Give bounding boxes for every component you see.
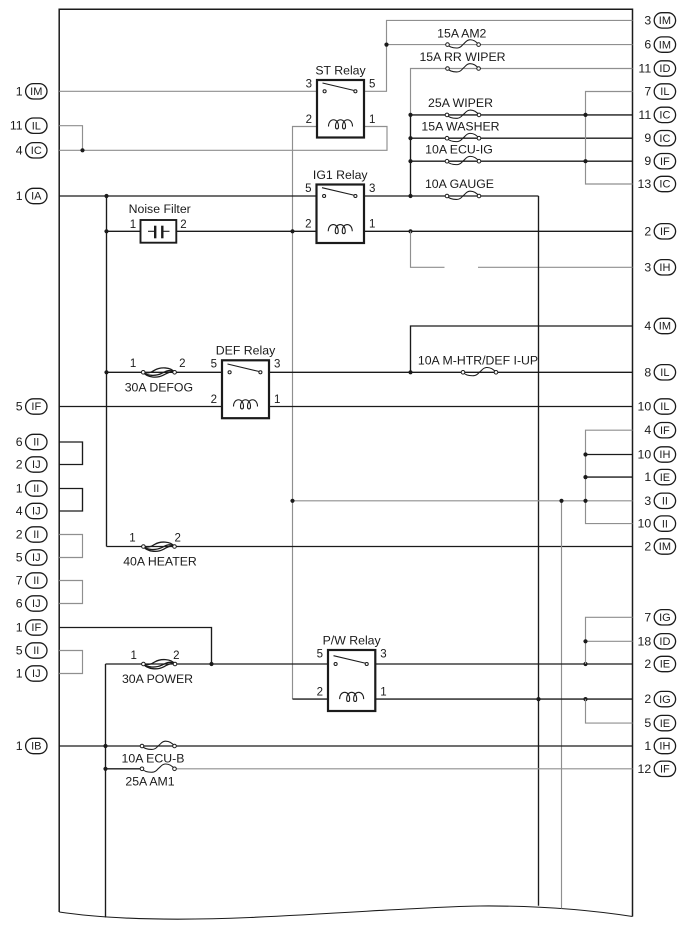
wire 1 IM to ST relay pin 3 xyxy=(59,90,317,92)
connector 11 IC (right) xyxy=(638,107,675,122)
svg-text:1: 1 xyxy=(16,482,23,496)
connector 9 IF (right) xyxy=(644,154,675,169)
wire 25A WIPER row to 11 IC xyxy=(411,114,633,116)
svg-text:18: 18 xyxy=(638,634,652,648)
svg-text:10A GAUGE: 10A GAUGE xyxy=(425,177,494,191)
svg-text:1: 1 xyxy=(16,189,23,203)
svg-text:IM: IM xyxy=(30,86,42,98)
wire 2 II / 5 IJ bracket xyxy=(59,535,82,558)
svg-text:IB: IB xyxy=(31,741,41,753)
connector 12 IF (right) xyxy=(638,761,676,776)
svg-text:5: 5 xyxy=(369,78,375,90)
svg-text:IE: IE xyxy=(660,472,670,484)
junction ECU-B bus xyxy=(103,744,107,748)
connector 13 IC (right) xyxy=(638,176,676,191)
connector 1 IH (right) xyxy=(644,738,675,753)
wire contact spur to 3 IH xyxy=(411,231,445,267)
connector 2 II (left) xyxy=(16,527,47,542)
svg-text:15A RR WIPER: 15A RR WIPER xyxy=(419,50,505,64)
junction bracket / 10 IH xyxy=(583,452,587,456)
connector 9 IC (right) xyxy=(644,131,675,146)
svg-text:10A M-HTR/DEF I-UP: 10A M-HTR/DEF I-UP xyxy=(418,354,538,368)
svg-text:4: 4 xyxy=(16,143,23,157)
wire 11 IL stub xyxy=(59,126,82,151)
fuse 15A AM2 xyxy=(437,26,486,48)
fuse 10A ECU-B xyxy=(122,741,185,765)
svg-text:2: 2 xyxy=(211,394,217,406)
svg-text:IH: IH xyxy=(659,449,670,461)
wire 5 IE bracket xyxy=(586,699,633,723)
svg-text:10A ECU-B: 10A ECU-B xyxy=(122,752,185,766)
svg-text:IG1 Relay: IG1 Relay xyxy=(313,168,369,182)
connector 11 IL (left) xyxy=(10,118,47,133)
svg-text:1: 1 xyxy=(274,394,280,406)
junction 11 IL / 4 IC xyxy=(80,148,84,152)
svg-text:7: 7 xyxy=(16,574,23,588)
svg-text:2: 2 xyxy=(306,114,312,126)
junction fuse bus / GAUGE row xyxy=(408,194,412,198)
wire left feed bus upper xyxy=(106,196,108,547)
connector 3 IH (right) xyxy=(644,260,675,275)
fuse 10A ECU-IG xyxy=(425,142,493,164)
wire 18 ID stub xyxy=(586,640,633,642)
connector 10 II (right) xyxy=(638,516,676,531)
svg-text:10A ECU-IG: 10A ECU-IG xyxy=(425,142,493,156)
wire 1 II / 4 IJ bracket xyxy=(59,489,82,512)
connector 4 IC (left) xyxy=(16,143,47,158)
svg-text:13: 13 xyxy=(638,177,652,191)
svg-text:IC: IC xyxy=(31,145,42,157)
wire 5 II / 1 IJ bracket xyxy=(59,651,82,674)
svg-text:7: 7 xyxy=(644,85,651,99)
svg-text:IC: IC xyxy=(659,133,670,145)
junction 2 IF / contact spur xyxy=(408,229,412,233)
connector 4 IM (right) xyxy=(644,318,675,333)
svg-text:4: 4 xyxy=(644,319,651,333)
svg-text:II: II xyxy=(33,645,39,657)
svg-text:4: 4 xyxy=(16,504,23,518)
junction AM2 / ST pin 5 / 3 IM xyxy=(384,43,388,47)
svg-text:1: 1 xyxy=(16,84,23,98)
connector 6 IM (right) xyxy=(644,37,675,52)
connector 7 IG (right) xyxy=(644,610,675,625)
svg-text:6: 6 xyxy=(644,38,651,52)
svg-text:2: 2 xyxy=(174,532,180,544)
svg-text:2: 2 xyxy=(644,657,651,671)
connector 10 IH (right) xyxy=(638,447,676,462)
connector 3 II (right) xyxy=(644,493,675,508)
wire noise filter row / IG1 coil xyxy=(107,230,141,232)
svg-text:II: II xyxy=(662,518,668,530)
svg-text:IE: IE xyxy=(660,659,670,671)
wire left feed bus lower xyxy=(105,664,107,918)
svg-text:1: 1 xyxy=(16,621,23,635)
wire 1 IA to IG1 relay pin 5 xyxy=(59,195,316,197)
relay IG1 xyxy=(305,168,375,243)
wire P/W relay pin 3 to 2 IE xyxy=(375,663,632,665)
svg-text:IG: IG xyxy=(659,612,671,624)
svg-text:1: 1 xyxy=(130,650,136,662)
svg-text:IH: IH xyxy=(659,741,670,753)
noise filter (capacitor) xyxy=(129,202,191,243)
svg-text:IM: IM xyxy=(659,541,671,553)
connector 1 IJ (left) xyxy=(16,666,47,681)
svg-text:25A AM1: 25A AM1 xyxy=(125,774,174,788)
fusible link 30A POWER xyxy=(122,650,193,686)
wire DEF relay pin 3 to 8 IL xyxy=(269,371,633,373)
svg-text:DEF Relay: DEF Relay xyxy=(216,344,276,358)
wire 15A WASHER row to 9 IC xyxy=(411,137,633,139)
svg-text:IJ: IJ xyxy=(32,552,41,564)
junction noise filter bus xyxy=(104,229,108,233)
svg-text:1: 1 xyxy=(16,667,23,681)
svg-text:5: 5 xyxy=(16,644,23,658)
fusible link 40A HEATER xyxy=(123,532,197,568)
svg-text:IH: IH xyxy=(659,262,670,274)
svg-text:8: 8 xyxy=(644,365,651,379)
fuse 25A WIPER xyxy=(428,96,493,118)
wire 6 IM / 15A AM2 feed xyxy=(387,44,633,46)
connector 2 IJ (left) xyxy=(16,457,47,472)
svg-text:1: 1 xyxy=(644,470,651,484)
wire 10 IH stub xyxy=(586,454,633,456)
connector 5 IF (left) xyxy=(16,399,47,414)
svg-text:IC: IC xyxy=(659,110,670,122)
svg-text:1: 1 xyxy=(380,687,386,699)
wire 7 IG bracket xyxy=(586,617,633,664)
svg-text:2: 2 xyxy=(16,458,23,472)
wire ST relay pin 2 down-bus to P/W relay pin 2 xyxy=(293,127,318,700)
connector 1 IM (left) xyxy=(16,84,47,99)
svg-text:2: 2 xyxy=(180,219,186,231)
svg-text:10: 10 xyxy=(638,517,652,531)
svg-text:II: II xyxy=(662,496,668,508)
wire 6 II / 2 IJ bracket xyxy=(59,442,82,465)
fuse 15A WASHER xyxy=(421,119,499,141)
wire GAUGE output drop xyxy=(538,196,540,906)
wire 1 IF xyxy=(59,628,211,665)
svg-text:2: 2 xyxy=(16,528,23,542)
svg-text:2: 2 xyxy=(644,540,651,554)
connector 1 IA (left) xyxy=(16,188,47,203)
svg-text:II: II xyxy=(33,437,39,449)
connector 2 IG (right) xyxy=(644,691,675,706)
svg-text:Noise Filter: Noise Filter xyxy=(129,202,191,216)
frame bottom torn edge xyxy=(59,906,632,919)
svg-text:3: 3 xyxy=(644,494,651,508)
svg-text:IF: IF xyxy=(660,156,670,168)
svg-text:2: 2 xyxy=(305,219,311,231)
svg-text:II: II xyxy=(33,529,39,541)
svg-text:IM: IM xyxy=(659,39,671,51)
connector 4 IJ (left) xyxy=(16,503,47,518)
wire 30A DEFOG row xyxy=(107,371,223,373)
svg-text:15A AM2: 15A AM2 xyxy=(437,26,486,40)
junction AM1 bus xyxy=(103,767,107,771)
svg-text:5: 5 xyxy=(644,716,651,730)
junction bracket / 18 ID xyxy=(583,639,587,643)
connector 4 IF (right) xyxy=(644,423,675,438)
svg-text:IJ: IJ xyxy=(32,459,41,471)
wire 30A POWER row to P/W relay pin 5 xyxy=(106,663,329,665)
svg-text:1: 1 xyxy=(130,219,136,231)
wire 4 IM xyxy=(411,326,633,372)
wire 10A ECU-IG row to 9 IF xyxy=(411,160,633,162)
svg-text:15A WASHER: 15A WASHER xyxy=(421,119,499,133)
relay DEF xyxy=(211,344,281,418)
connector 3 IM (right) xyxy=(644,13,675,28)
svg-text:IC: IC xyxy=(659,179,670,191)
svg-text:3: 3 xyxy=(369,183,375,195)
wire 4 IF bracket to 10 II xyxy=(586,430,633,523)
wire P/W relay pin 2 feed xyxy=(293,698,329,700)
svg-text:IJ: IJ xyxy=(32,668,41,680)
junction 2 IE / 7 IG bracket xyxy=(583,662,587,666)
svg-text:IL: IL xyxy=(32,120,41,132)
wire 11 ID / 15A RR WIPER feed xyxy=(411,69,633,115)
junction bracket / 9 IF xyxy=(583,159,587,163)
svg-text:1: 1 xyxy=(644,739,651,753)
connector 18 ID (right) xyxy=(638,634,676,649)
wire 1 IB to 10A ECU-B to 1 IH xyxy=(59,745,632,747)
junction IG1 coil / ST pin 2 bus xyxy=(290,229,294,233)
svg-text:IJ: IJ xyxy=(32,598,41,610)
svg-text:3: 3 xyxy=(644,13,651,27)
svg-text:IM: IM xyxy=(659,15,671,27)
svg-text:2: 2 xyxy=(317,687,323,699)
wire 25A AM1 feed xyxy=(106,768,143,770)
svg-text:IM: IM xyxy=(659,321,671,333)
junction mid drop / 3 II xyxy=(559,499,563,503)
svg-text:3: 3 xyxy=(380,648,386,660)
svg-text:IL: IL xyxy=(660,86,669,98)
junction bracket / 1 IE xyxy=(583,475,587,479)
svg-text:1: 1 xyxy=(129,532,135,544)
wire 40A HEATER row to 2 IM xyxy=(107,546,633,548)
svg-text:25A WIPER: 25A WIPER xyxy=(428,96,493,110)
relay P/W xyxy=(317,633,387,711)
svg-text:10: 10 xyxy=(638,448,652,462)
svg-text:40A HEATER: 40A HEATER xyxy=(123,555,197,569)
wire mid drop xyxy=(561,501,563,909)
svg-text:2: 2 xyxy=(179,358,185,370)
svg-text:5: 5 xyxy=(305,183,311,195)
svg-text:II: II xyxy=(33,483,39,495)
svg-text:IF: IF xyxy=(31,622,41,634)
wire 3 II row xyxy=(293,500,633,502)
svg-text:IF: IF xyxy=(31,401,41,413)
junction ECU-IG row xyxy=(408,159,412,163)
connector 1 IE (right) xyxy=(644,469,675,484)
wire 7 IL bracket to 13 IC xyxy=(586,92,633,185)
wire 25A AM1 to 12 IF xyxy=(175,768,633,770)
svg-text:IL: IL xyxy=(660,401,669,413)
open contact pair to 3 IH xyxy=(0,0,1,1)
wire 5 IF to DEF relay pin 2 xyxy=(59,406,222,408)
svg-text:P/W Relay: P/W Relay xyxy=(323,633,382,647)
junction 4 IM / DEF pin 3 row xyxy=(408,370,412,374)
wire noise filter to IG1 relay pin 2 xyxy=(176,230,316,232)
svg-text:ID: ID xyxy=(659,636,670,648)
fusible link 30A DEFOG xyxy=(125,358,193,394)
connector 8 IL (right) xyxy=(644,365,675,380)
connector 5 II (left) xyxy=(16,643,47,658)
svg-text:IF: IF xyxy=(660,425,670,437)
wire P/W relay pin 1 to 2 IG xyxy=(375,698,632,700)
svg-text:1: 1 xyxy=(369,219,375,231)
svg-text:9: 9 xyxy=(644,131,651,145)
svg-text:II: II xyxy=(33,575,39,587)
wire 7 II / 6 IJ bracket xyxy=(59,581,82,604)
svg-text:ST Relay: ST Relay xyxy=(315,63,366,77)
svg-text:2: 2 xyxy=(173,650,179,662)
svg-text:11: 11 xyxy=(10,119,23,133)
junction WIPER row xyxy=(408,113,412,117)
svg-text:IJ: IJ xyxy=(32,506,41,518)
svg-text:IF: IF xyxy=(660,764,670,776)
junction bracket / 3 II xyxy=(583,499,587,503)
connector 1 IB (left) xyxy=(16,738,47,753)
svg-text:10: 10 xyxy=(638,400,652,414)
connector 7 IL (right) xyxy=(644,84,675,99)
svg-text:3: 3 xyxy=(274,359,280,371)
connector 1 II (left) xyxy=(16,481,47,496)
svg-text:IG: IG xyxy=(659,694,671,706)
svg-text:7: 7 xyxy=(644,610,651,624)
wire 3 IM xyxy=(387,20,633,44)
fuse 25A AM1 xyxy=(125,764,176,788)
svg-text:5: 5 xyxy=(317,648,323,660)
svg-text:6: 6 xyxy=(16,597,23,611)
connector 7 II (left) xyxy=(16,573,47,588)
connector 5 IJ (left) xyxy=(16,550,47,565)
svg-text:5: 5 xyxy=(16,400,23,414)
svg-text:11: 11 xyxy=(638,62,651,76)
connector 6 II (left) xyxy=(16,434,47,449)
svg-text:30A POWER: 30A POWER xyxy=(122,672,193,686)
svg-text:6: 6 xyxy=(16,435,23,449)
junction bracket / 11 IC xyxy=(583,113,587,117)
connector 11 ID (right) xyxy=(638,61,675,76)
svg-text:2: 2 xyxy=(644,224,651,238)
wire 4 IC to ST relay pin 1 xyxy=(59,127,387,151)
fuse 10A M-HTR/DEF I-UP xyxy=(418,354,538,376)
connector 2 IE (right) xyxy=(644,656,675,671)
svg-text:ID: ID xyxy=(659,63,670,75)
fuse 10A GAUGE xyxy=(425,177,494,199)
svg-text:IL: IL xyxy=(660,367,669,379)
svg-text:3: 3 xyxy=(644,260,651,274)
svg-text:30A DEFOG: 30A DEFOG xyxy=(125,380,193,394)
svg-text:IF: IF xyxy=(660,226,670,238)
junction 2 IG / 5 IE bracket xyxy=(583,697,587,701)
junction 1 IF / POWER row xyxy=(209,662,213,666)
junction 3 II start xyxy=(290,499,294,503)
connector 6 IJ (left) xyxy=(16,596,47,611)
svg-text:5: 5 xyxy=(211,359,217,371)
svg-text:1: 1 xyxy=(369,114,375,126)
svg-text:1: 1 xyxy=(130,358,136,370)
svg-text:IA: IA xyxy=(31,191,42,203)
wire ST relay pin 5 riser xyxy=(364,45,387,92)
wire IG1 relay pin 1 to 2 IF xyxy=(364,230,633,232)
wire fuse bus riser xyxy=(410,115,412,196)
svg-text:4: 4 xyxy=(644,423,651,437)
svg-text:IE: IE xyxy=(660,718,670,730)
wire 1 IE stub xyxy=(586,476,633,478)
wire 3 IH from contact xyxy=(478,266,633,268)
fuse 15A RR WIPER xyxy=(419,50,505,72)
svg-text:9: 9 xyxy=(644,154,651,168)
svg-text:12: 12 xyxy=(638,762,652,776)
wire DEF relay pin 1 to 10 IL xyxy=(269,406,633,408)
junction 2 IG / GAUGE drop xyxy=(536,697,540,701)
svg-text:5: 5 xyxy=(16,551,23,565)
connector 2 IF (right) xyxy=(644,224,675,239)
connector 5 IE (right) xyxy=(644,715,675,730)
svg-text:1: 1 xyxy=(16,739,23,753)
wire IG1 relay pin 3 to 10A GAUGE xyxy=(364,195,539,197)
junction DEFOG bus xyxy=(104,370,108,374)
svg-text:2: 2 xyxy=(644,692,651,706)
connector 2 IM (right) xyxy=(644,539,675,554)
junction WASHER row xyxy=(408,136,412,140)
junction 1 IA bus xyxy=(104,194,108,198)
connector 1 IF (left) xyxy=(16,620,47,635)
svg-text:11: 11 xyxy=(638,108,651,122)
connector 10 IL (right) xyxy=(638,399,676,414)
svg-text:3: 3 xyxy=(306,78,312,90)
relay ST xyxy=(306,63,376,137)
